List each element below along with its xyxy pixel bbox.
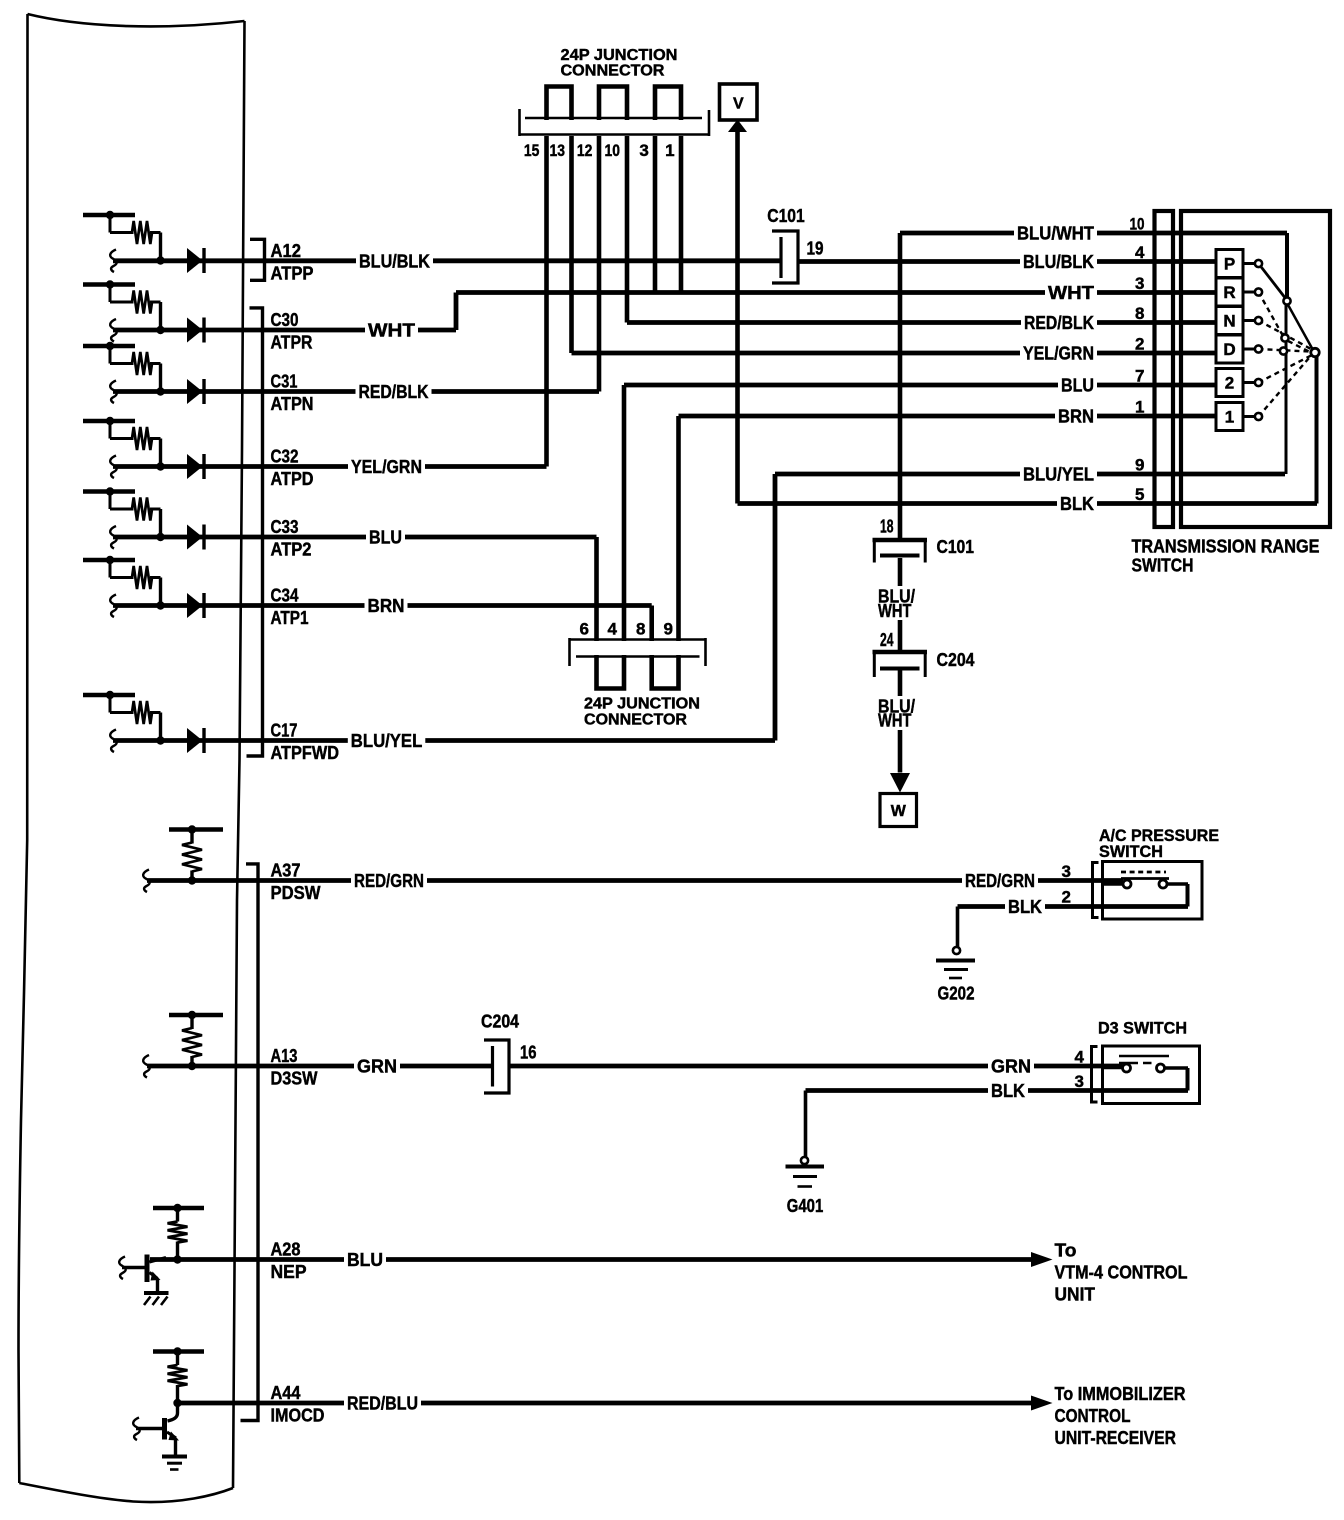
svg-text:To: To bbox=[1055, 1241, 1077, 1261]
svg-text:ATPR: ATPR bbox=[271, 333, 313, 353]
svg-text:2: 2 bbox=[1225, 374, 1234, 393]
svg-text:19: 19 bbox=[807, 239, 824, 259]
svg-text:C30: C30 bbox=[271, 310, 299, 330]
svg-text:D: D bbox=[1223, 340, 1235, 359]
svg-text:V: V bbox=[733, 96, 744, 113]
svg-text:BLK: BLK bbox=[1060, 494, 1094, 514]
svg-text:A13: A13 bbox=[271, 1046, 298, 1066]
svg-text:G202: G202 bbox=[938, 984, 975, 1004]
svg-text:BRN: BRN bbox=[1058, 407, 1094, 427]
svg-text:C34: C34 bbox=[271, 586, 299, 606]
svg-text:WHT: WHT bbox=[1048, 283, 1094, 303]
svg-text:ATPP: ATPP bbox=[271, 263, 314, 283]
svg-text:10: 10 bbox=[605, 141, 621, 160]
svg-text:10: 10 bbox=[1130, 215, 1145, 234]
svg-text:YEL/GRN: YEL/GRN bbox=[351, 457, 422, 477]
svg-text:N: N bbox=[1223, 312, 1235, 331]
svg-text:WHT: WHT bbox=[878, 601, 912, 621]
svg-text:15: 15 bbox=[524, 141, 540, 160]
svg-text:24P JUNCTION: 24P JUNCTION bbox=[584, 696, 700, 713]
svg-text:3: 3 bbox=[639, 141, 648, 160]
svg-text:G401: G401 bbox=[787, 1196, 824, 1216]
svg-text:RED/BLU: RED/BLU bbox=[347, 1394, 418, 1414]
svg-text:D3 SWITCH: D3 SWITCH bbox=[1098, 1019, 1187, 1038]
svg-text:CONNECTOR: CONNECTOR bbox=[561, 63, 665, 80]
svg-text:BLK: BLK bbox=[991, 1081, 1025, 1101]
svg-text:CONTROL: CONTROL bbox=[1055, 1406, 1131, 1426]
svg-text:C33: C33 bbox=[271, 517, 299, 537]
svg-text:BLU/BLK: BLU/BLK bbox=[1023, 252, 1094, 272]
svg-text:BLK: BLK bbox=[1008, 897, 1042, 917]
svg-text:W: W bbox=[891, 803, 907, 820]
svg-text:A12: A12 bbox=[271, 241, 302, 261]
svg-text:8: 8 bbox=[636, 620, 645, 639]
svg-text:4: 4 bbox=[1135, 243, 1145, 262]
svg-text:SWITCH: SWITCH bbox=[1132, 556, 1194, 576]
svg-text:C32: C32 bbox=[271, 447, 299, 467]
svg-text:UNIT: UNIT bbox=[1055, 1285, 1096, 1305]
svg-text:24: 24 bbox=[880, 630, 894, 650]
svg-text:18: 18 bbox=[880, 517, 894, 537]
svg-text:2: 2 bbox=[1062, 888, 1071, 907]
svg-text:GRN: GRN bbox=[357, 1057, 397, 1077]
svg-text:5: 5 bbox=[1135, 485, 1144, 504]
svg-text:7: 7 bbox=[1135, 367, 1144, 386]
svg-text:3: 3 bbox=[1135, 274, 1144, 293]
svg-text:WHT: WHT bbox=[368, 321, 415, 341]
svg-text:RED/BLK: RED/BLK bbox=[1024, 313, 1094, 333]
svg-text:To IMMOBILIZER: To IMMOBILIZER bbox=[1055, 1384, 1186, 1404]
svg-text:UNIT-RECEIVER: UNIT-RECEIVER bbox=[1055, 1428, 1177, 1448]
svg-text:1: 1 bbox=[1135, 398, 1144, 417]
svg-text:16: 16 bbox=[520, 1043, 537, 1063]
svg-text:NEP: NEP bbox=[271, 1262, 307, 1282]
svg-text:C204: C204 bbox=[481, 1012, 519, 1032]
svg-text:P: P bbox=[1224, 255, 1235, 274]
svg-text:12: 12 bbox=[577, 141, 593, 160]
svg-text:RED/BLK: RED/BLK bbox=[359, 382, 429, 402]
svg-text:6: 6 bbox=[580, 620, 589, 639]
svg-text:RED/GRN: RED/GRN bbox=[965, 871, 1035, 891]
svg-text:RED/GRN: RED/GRN bbox=[354, 871, 424, 891]
svg-text:BLU/WHT: BLU/WHT bbox=[1017, 224, 1094, 244]
svg-text:24P JUNCTION: 24P JUNCTION bbox=[561, 47, 678, 64]
svg-text:C204: C204 bbox=[937, 650, 975, 670]
svg-text:9: 9 bbox=[1135, 456, 1144, 475]
svg-text:3: 3 bbox=[1062, 862, 1071, 881]
svg-text:C31: C31 bbox=[271, 372, 298, 392]
svg-text:3: 3 bbox=[1075, 1072, 1084, 1091]
svg-text:YEL/GRN: YEL/GRN bbox=[1023, 344, 1094, 364]
svg-text:GRN: GRN bbox=[991, 1057, 1031, 1077]
svg-text:BLU: BLU bbox=[369, 528, 402, 548]
svg-text:4: 4 bbox=[608, 620, 618, 639]
svg-text:BRN: BRN bbox=[368, 596, 405, 616]
svg-text:ATPD: ATPD bbox=[271, 469, 314, 489]
svg-text:R: R bbox=[1223, 283, 1235, 302]
svg-text:D3SW: D3SW bbox=[271, 1069, 318, 1089]
svg-text:VTM-4 CONTROL: VTM-4 CONTROL bbox=[1055, 1263, 1188, 1283]
svg-text:ATP2: ATP2 bbox=[271, 540, 312, 560]
svg-text:8: 8 bbox=[1135, 304, 1144, 323]
svg-text:IMOCD: IMOCD bbox=[271, 1406, 325, 1426]
svg-text:C101: C101 bbox=[937, 537, 975, 557]
svg-text:A44: A44 bbox=[271, 1383, 301, 1403]
svg-text:A28: A28 bbox=[271, 1240, 301, 1260]
svg-text:C17: C17 bbox=[271, 721, 298, 741]
svg-text:PDSW: PDSW bbox=[271, 883, 321, 903]
svg-text:2: 2 bbox=[1135, 335, 1144, 354]
svg-text:BLU/YEL: BLU/YEL bbox=[1023, 465, 1094, 485]
svg-text:BLU/BLK: BLU/BLK bbox=[359, 251, 430, 271]
svg-text:CONNECTOR: CONNECTOR bbox=[584, 712, 687, 729]
svg-text:ATPN: ATPN bbox=[271, 394, 314, 414]
svg-text:13: 13 bbox=[550, 141, 566, 160]
svg-text:C101: C101 bbox=[767, 206, 805, 226]
svg-text:4: 4 bbox=[1075, 1048, 1085, 1067]
svg-text:1: 1 bbox=[665, 141, 674, 160]
svg-text:BLU/YEL: BLU/YEL bbox=[351, 731, 423, 751]
svg-text:ATP1: ATP1 bbox=[271, 608, 309, 628]
svg-text:ATPFWD: ATPFWD bbox=[271, 743, 340, 763]
svg-text:9: 9 bbox=[664, 620, 673, 639]
svg-text:BLU: BLU bbox=[1061, 376, 1094, 396]
svg-text:WHT: WHT bbox=[878, 711, 912, 731]
svg-text:A37: A37 bbox=[271, 861, 301, 881]
svg-text:TRANSMISSION RANGE: TRANSMISSION RANGE bbox=[1132, 537, 1320, 557]
svg-text:BLU: BLU bbox=[347, 1250, 383, 1270]
svg-text:1: 1 bbox=[1225, 408, 1234, 427]
svg-text:SWITCH: SWITCH bbox=[1099, 842, 1163, 861]
